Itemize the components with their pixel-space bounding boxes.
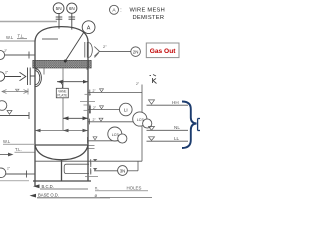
svg-text:WIRE MESH: WIRE MESH [130,7,166,13]
left nozzle row y=174 [0,168,35,178]
svg-text:T.L.: T.L. [18,34,25,39]
svg-text:PLATE: PLATE [57,93,67,97]
svg-text:n,: n, [95,186,99,191]
blue bracket [198,119,200,131]
top-left W.L / T.L labels [6,34,24,41]
base left line [0,180,29,182]
B.C.D. [33,184,40,188]
svg-text:DEMISTER: DEMISTER [133,15,165,21]
instrument connection triangles [93,89,104,140]
BASE O.D. [30,194,37,198]
svg-text:Gas Out: Gas Out [150,48,176,55]
circle 2N [131,47,141,57]
bottom right dim ticks [89,145,95,148]
svg-text:LCS: LCS [112,133,120,137]
gas outlet nozzle right of head [85,42,131,58]
right wall instrument nozzles [88,90,143,144]
left inlet nozzle y=75.5 [0,68,41,87]
weld seam in head [42,38,58,40]
circle 3N [118,166,128,176]
wall crossing ticks [80,94,95,110]
dim line y=118.3 [63,116,88,120]
svg-text:6N: 6N [69,6,75,11]
svg-text:W.L: W.L [3,139,11,144]
wire mesh demister band [33,60,91,74]
nozzle 5N [53,3,64,29]
svg-text:5N: 5N [56,6,62,11]
svg-text:2": 2" [103,44,107,49]
svg-text:B.C.D.: B.C.D. [42,184,54,189]
svg-text:NL: NL [174,125,180,130]
svg-text:HOLES: HOLES [127,185,142,190]
svg-text:3N: 3N [120,168,126,173]
standpipe [141,85,143,162]
nozzle 6N [67,3,77,30]
vertical extension line x=63 [62,69,64,131]
svg-text:A: A [87,25,91,31]
vane plate leader hook [61,83,63,88]
nozzle size labels right wall [93,89,97,122]
svg-text:BASE O.D.: BASE O.D. [38,193,59,198]
demister dim arrows y=81.7 [57,80,88,84]
instrument LCS upper [133,112,152,128]
level HH [147,100,189,105]
svg-text::: : [120,8,121,14]
callout A with leader to demister [64,21,95,63]
skirt internal lines [35,161,91,174]
lower W.L / T.L labels [3,139,22,152]
svg-text:W.L: W.L [6,35,14,40]
vessel shell [33,27,91,186]
interior liquid level line [35,130,88,132]
svg-text:HH: HH [172,100,179,105]
svg-text:LCS: LCS [137,118,145,122]
small arrow y=154 [0,154,9,156]
left nozzle row y=115.5 [0,101,29,119]
svg-text:LI: LI [124,107,128,112]
svg-text:ø: ø [95,193,98,198]
vane plate box [56,88,68,98]
instrument LCS lower [108,127,127,143]
left nozzle row y=54 [0,50,35,59]
svg-text:2N: 2N [133,50,139,55]
Gas Out box [146,43,179,58]
svg-text:LL: LL [174,136,180,141]
level NL [147,125,189,130]
left dim line y=91.5 [2,89,28,95]
svg-text:T.L.: T.L. [15,147,22,152]
level LL [147,136,189,141]
blue brace [182,102,197,149]
dimension slash [95,53,99,58]
small annotation glyph [150,75,157,84]
legend: (A): WIRE MESH DEMISTER [110,5,166,21]
instrument LI [120,103,133,116]
border/grid line top-left [0,21,57,23]
